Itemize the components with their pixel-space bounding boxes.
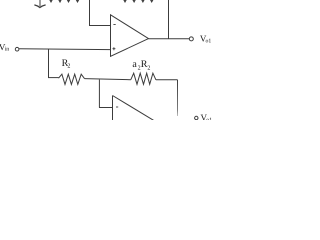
ground [34,0,45,8]
svg-text:o1: o1 [206,39,212,45]
resistor a1R1 (top, clipped at image top edge) [121,0,157,2]
label Vo2 (clipped at image bottom edge) [201,113,213,124]
op-amp U1 [111,15,149,57]
pin - of U2 [116,106,118,108]
terminal Vo2 (clipped at image bottom edge) [195,116,198,119]
wire [19,48,111,51]
wire [149,38,190,40]
pin + of U1 [113,47,116,50]
wire [99,107,113,109]
svg-text:in: in [5,46,10,52]
svg-text:o1: o1 [206,118,212,120]
resistor R1 (top, clipped at image top edge) [47,0,83,2]
wire [89,0,91,26]
label a2R2 [132,59,150,72]
resistor R2 [59,74,85,84]
wire [177,80,179,116]
wire [48,77,59,79]
wire [48,49,50,78]
pin - of U1 [113,24,115,26]
wire [156,79,178,81]
svg-text:2: 2 [147,65,150,71]
terminal Vo1 [189,37,193,41]
label Vo1 [200,34,211,45]
terminal Vin [15,47,19,51]
wire [85,79,131,80]
label R2 [62,58,71,70]
resistor a2R2 [131,73,156,84]
wire [89,25,111,27]
wire [98,80,100,108]
label Vin [0,42,9,53]
svg-text:2: 2 [67,63,70,69]
wire [168,0,170,39]
op-amp U2 (clipped at image bottom edge) [113,96,155,121]
